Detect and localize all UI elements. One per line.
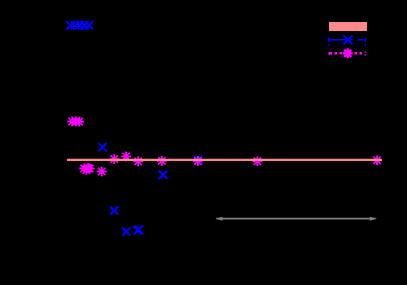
gray double-headed arrow annotation xyxy=(215,217,377,221)
blue X data point (103,147) xyxy=(99,143,107,151)
magenta asterisk data point (102,171) xyxy=(97,167,107,177)
legend key 2: blue errorbar sample with X marker xyxy=(329,36,366,46)
blue X double data point (138,230) xyxy=(134,225,143,234)
magenta asterisk data point (138,161) xyxy=(133,156,143,166)
salmon horizontal fit line xyxy=(67,159,382,161)
blue X data point cluster top-left xyxy=(66,21,93,29)
magenta asterisk data point (126,156) xyxy=(121,152,131,162)
blue X data point (114,210) xyxy=(110,206,118,214)
magenta asterisk data point (198,161) xyxy=(193,156,203,166)
magenta asterisk data point (257,161) xyxy=(253,156,263,166)
legend key 1: salmon filled box sample xyxy=(329,22,367,31)
blue X data point (126,231) xyxy=(122,227,130,235)
magenta asterisk data point (162,161) xyxy=(157,156,167,166)
blue X data point (198,160) xyxy=(194,156,202,164)
blue X data point (163,175) xyxy=(159,171,167,179)
magenta asterisk data point cluster (72-79,121) xyxy=(67,116,84,126)
magenta asterisk data point (114,159) xyxy=(109,154,119,164)
magenta asterisk data point (377,160) xyxy=(372,155,382,165)
legend key 3: magenta dashed sample with asterisk marker xyxy=(329,48,365,58)
magenta asterisk data point cluster below line (84-90,169) xyxy=(79,163,94,175)
